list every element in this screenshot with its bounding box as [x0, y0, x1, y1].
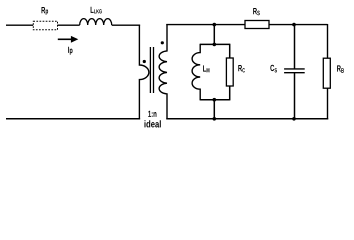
wire bottom-left return — [6, 118, 140, 120]
transformer core lines — [150, 47, 153, 93]
node junction dot bottom of Cs branch — [292, 117, 296, 121]
label ideal — [144, 120, 160, 127]
node junction dot bottom rail left — [213, 117, 217, 121]
wire secondary top rail — [166, 24, 245, 26]
transformer T1 secondary winding 4 loops — [159, 24, 167, 119]
transformer T1 primary winding with single loop — [139, 25, 148, 120]
resistor R4 Rb load — [323, 58, 330, 88]
node junction dot top of Lm/Rc branch — [213, 23, 217, 27]
wire right branch down — [327, 24, 329, 58]
label 1:n — [148, 111, 156, 117]
resistor R2 Rc core-loss — [226, 44, 233, 101]
wire top-left input to Rp — [6, 24, 33, 26]
node junction dot top of Cs branch — [292, 23, 296, 27]
transformer secondary polarity dot — [161, 41, 164, 44]
inductor L2 Lm magnetizing — [192, 44, 200, 101]
label Cs — [270, 65, 277, 73]
label Llkg — [91, 7, 102, 14]
wire group top rail — [200, 43, 230, 45]
wire secondary bottom rail — [166, 118, 328, 120]
inductor L1 Llkg — [80, 19, 112, 25]
capacitor C1 Cs — [284, 25, 305, 119]
label Rc — [238, 65, 245, 72]
wire stub down to Lm/Rc group — [213, 25, 215, 45]
wire group bottom rail — [200, 99, 230, 101]
node junction dot group top rail — [213, 43, 217, 47]
transformer primary polarity dot — [143, 60, 146, 63]
resistor R3 Rs series — [245, 21, 269, 29]
label Rb — [337, 65, 344, 72]
label Ip — [68, 47, 72, 55]
wire Llkg to transformer primary — [112, 24, 140, 26]
label Lm — [203, 65, 209, 72]
label Rp — [42, 7, 49, 15]
wire Rp to Llkg — [58, 24, 80, 26]
wire Rs to right — [269, 24, 328, 26]
wire stub down to bottom rail — [213, 100, 215, 119]
wire right branch bottom — [327, 88, 329, 119]
node junction dot group bottom rail — [213, 98, 217, 102]
arrow Ip current arrow — [58, 36, 79, 43]
label Rs — [253, 8, 260, 15]
resistor R1 Rp dashed box — [33, 21, 57, 30]
